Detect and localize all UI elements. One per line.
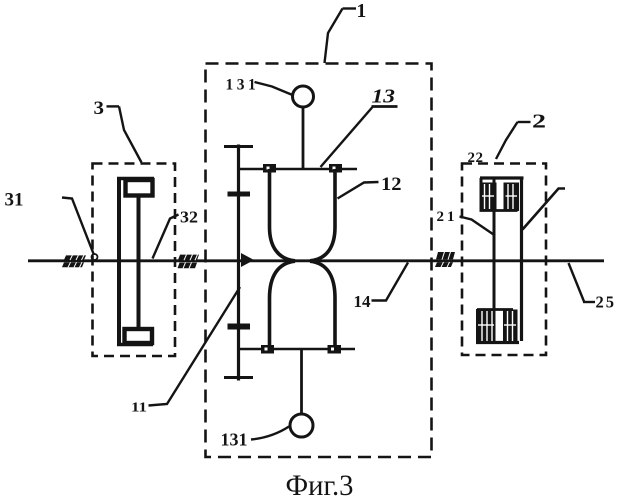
svg-text:22: 22 xyxy=(468,150,484,166)
svg-text:13: 13 xyxy=(372,86,396,108)
svg-text:Фиг.3: Фиг.3 xyxy=(286,470,354,500)
svg-text:131: 131 xyxy=(226,77,260,94)
svg-text:1: 1 xyxy=(357,1,367,22)
svg-text:14: 14 xyxy=(354,292,372,311)
svg-text:131: 131 xyxy=(221,430,248,450)
svg-text:31: 31 xyxy=(5,190,24,211)
svg-text:25: 25 xyxy=(596,293,617,312)
svg-text:3: 3 xyxy=(94,98,105,119)
svg-text:12: 12 xyxy=(381,174,402,195)
svg-text:21: 21 xyxy=(437,209,458,225)
svg-text:32: 32 xyxy=(180,208,198,227)
svg-text:2: 2 xyxy=(532,111,546,133)
svg-text:11: 11 xyxy=(131,400,147,415)
